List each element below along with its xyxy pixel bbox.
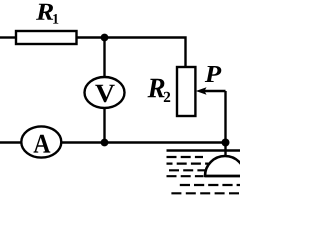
node junction bus-right (222, 139, 230, 147)
resistor R1 (16, 31, 77, 44)
label P (205, 66, 222, 82)
node junction top (voltmeter tap) (101, 34, 109, 42)
liquid surface line (167, 149, 241, 151)
wire bottom bus (62, 141, 226, 143)
rheostat R2 (177, 67, 195, 116)
label R1 subscript 1 (53, 14, 58, 24)
wire left stub to R1 (0, 36, 16, 38)
liquid dashes row 3 (169, 169, 206, 171)
wire slider riser down to bus (224, 91, 226, 143)
label R1 letter R (36, 4, 53, 20)
node junction bus-voltmeter (101, 139, 109, 147)
ammeter A (21, 126, 61, 157)
liquid dashes row 5 (180, 184, 240, 186)
wire left stub to ammeter (0, 141, 22, 143)
slider arrow of R2 (204, 90, 226, 92)
wire junction down to dome (224, 143, 226, 159)
dome base line (205, 175, 240, 178)
wire voltmeter bottom to bus (103, 107, 105, 143)
liquid dashes row 6 (171, 192, 240, 194)
label R2 subscript 2 (164, 92, 170, 102)
wire R1 to top-right corner and down to R2 (77, 38, 186, 68)
ammeter letter A (34, 135, 51, 153)
liquid dashes row 1 (167, 156, 204, 158)
dome in liquid (205, 156, 245, 176)
liquid dashes row 2 (167, 163, 209, 165)
label R2 letter R (148, 79, 165, 97)
wire junction to voltmeter top (103, 38, 105, 79)
voltmeter letter V (95, 85, 115, 103)
liquid dashes row 4 (167, 175, 204, 177)
voltmeter V (85, 77, 125, 108)
